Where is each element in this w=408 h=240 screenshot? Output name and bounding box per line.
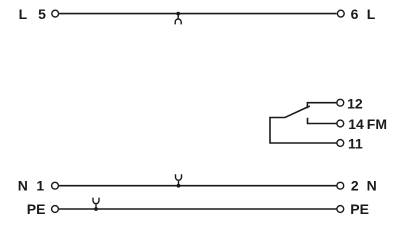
wire contact 14 <box>308 118 337 124</box>
svg-text:6: 6 <box>351 6 359 22</box>
plug connector symbol on PE wire (cup opening up) <box>93 198 99 209</box>
wire PE <box>59 208 337 210</box>
svg-text:PE: PE <box>350 201 369 217</box>
wire contact 12 <box>307 103 336 109</box>
plug connector symbol on L wire (cup opening down) <box>175 14 181 25</box>
junction dot on L wire <box>176 12 180 16</box>
svg-text:L: L <box>367 6 376 22</box>
svg-text:14: 14 <box>348 116 364 132</box>
svg-text:N: N <box>18 178 28 194</box>
junction dot on PE wire <box>94 207 98 211</box>
terminal circle PE left <box>52 206 59 213</box>
svg-text:L: L <box>19 6 28 22</box>
svg-text:PE: PE <box>27 201 46 217</box>
junction dot on N wire <box>177 184 181 188</box>
svg-text:2: 2 <box>351 178 359 194</box>
svg-text:FM: FM <box>367 116 387 132</box>
terminal circle 1 (N left) <box>52 182 59 189</box>
wire common 11 <box>270 118 337 144</box>
terminal circle 6 (L right) <box>337 10 344 17</box>
plug connector symbol on N wire (cup opening up) <box>176 174 182 185</box>
svg-text:N: N <box>367 178 377 194</box>
svg-text:1: 1 <box>36 178 44 194</box>
terminal circle 11 <box>337 140 344 147</box>
wire N <box>59 185 337 187</box>
terminal circle 12 <box>337 99 344 106</box>
svg-text:11: 11 <box>348 136 363 152</box>
terminal circle 2 (N right) <box>337 182 344 189</box>
terminal circle PE right <box>337 206 344 213</box>
svg-text:12: 12 <box>347 95 363 111</box>
terminal circle 14 <box>337 120 344 127</box>
wire L <box>59 13 337 15</box>
terminal circle 5 (L left) <box>52 10 59 17</box>
switch blade FM <box>285 106 310 118</box>
svg-text:5: 5 <box>38 6 46 22</box>
